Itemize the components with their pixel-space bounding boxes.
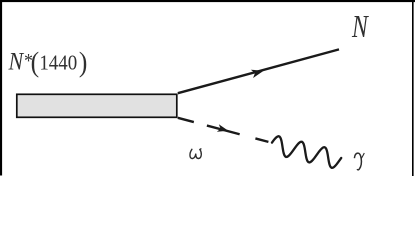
svg-text:1440: 1440 <box>39 52 77 75</box>
svg-text:(: ( <box>31 46 39 78</box>
svg-text:): ) <box>79 46 87 78</box>
N*(1440) propagator box <box>17 94 177 117</box>
arrow on nucleon line <box>251 67 265 78</box>
omega dashed line <box>178 118 269 142</box>
photon wavy line <box>272 136 341 168</box>
svg-text:N: N <box>8 48 25 76</box>
label N <box>351 10 370 45</box>
label gamma <box>354 153 364 170</box>
label omega <box>190 149 201 159</box>
label N*(1440) <box>8 46 88 78</box>
frame top border <box>0 0 415 2</box>
frame left border <box>0 0 2 176</box>
frame right border <box>412 0 414 176</box>
nucleon line N <box>178 49 339 93</box>
svg-text:N: N <box>351 10 370 45</box>
arrow on omega line <box>217 124 229 134</box>
